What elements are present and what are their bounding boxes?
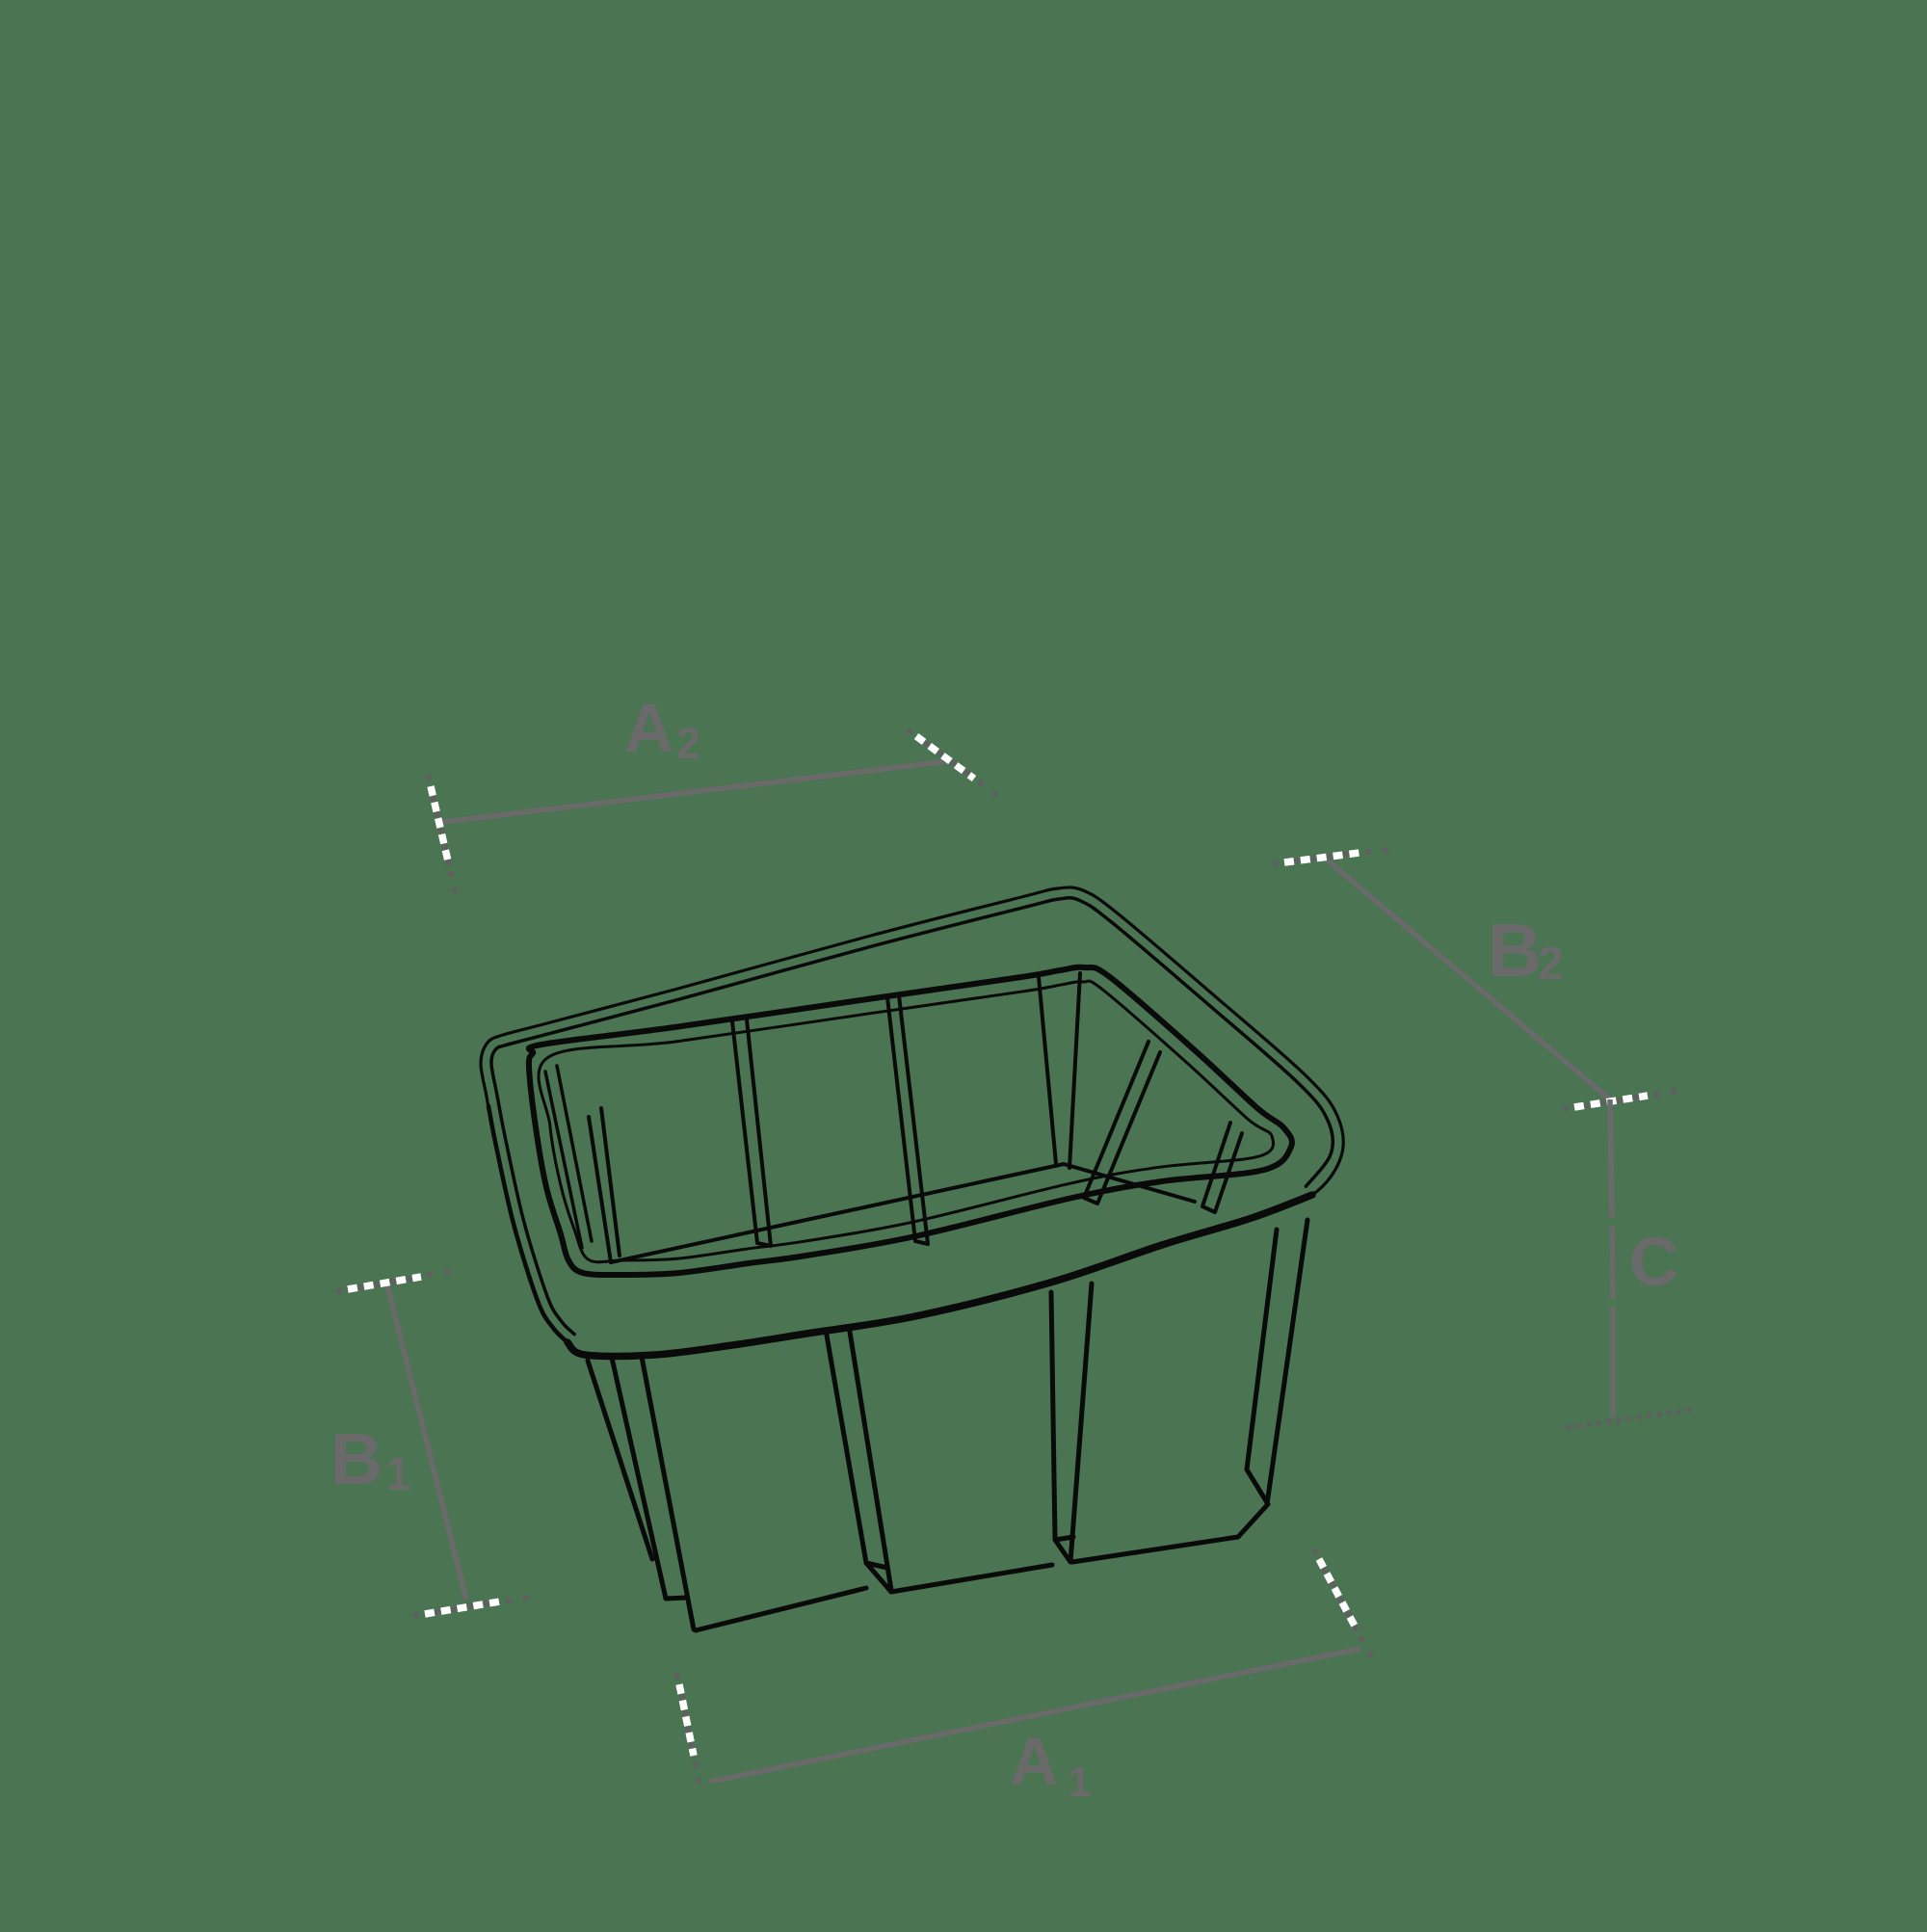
svg-text:1: 1 — [385, 1449, 411, 1500]
dimension B1 tick top — [336, 1288, 342, 1294]
dimension A1 line — [710, 1649, 1360, 1782]
svg-text:2: 2 — [676, 719, 700, 768]
svg-text:1: 1 — [1068, 1759, 1091, 1806]
dimension A2 line — [443, 761, 948, 822]
dimension C line — [1610, 1099, 1613, 1417]
interior floor edges — [611, 1164, 1195, 1262]
svg-text:2: 2 — [1538, 939, 1564, 990]
rim band bottom edge thick — [568, 1195, 1312, 1356]
interior back wall rib 1 — [732, 1019, 771, 1246]
dimension B2 tick bottom — [1563, 1105, 1569, 1111]
interior near-left wall lines — [545, 1066, 592, 1248]
dimension A2 tick left — [426, 775, 432, 781]
rim lower-left edge — [488, 1106, 568, 1342]
interior right wall rib A — [1084, 1042, 1160, 1204]
body left corner post — [588, 1357, 694, 1629]
interior back wall rib 2 — [887, 995, 928, 1244]
front slat gap 2 — [1051, 1284, 1092, 1562]
rim inner lip — [539, 981, 1274, 1262]
svg-text:A: A — [1010, 1724, 1059, 1799]
right face bottom edge and notch — [1238, 1469, 1268, 1537]
dimension C tick bottom dotted — [1566, 1424, 1571, 1430]
front slat gap 1 — [826, 1330, 891, 1592]
svg-text:A: A — [624, 691, 673, 767]
right face gap lines — [1247, 1220, 1307, 1504]
dimension B2 line — [1328, 860, 1610, 1099]
interior right wall rib B — [1202, 1123, 1242, 1212]
front slat bottom edges — [696, 1537, 1238, 1630]
svg-text:B: B — [330, 1418, 383, 1499]
dimension B2 tick top — [1273, 860, 1279, 866]
dimension A1 tick right — [1312, 1548, 1318, 1554]
dimension B1 tick bottom — [413, 1612, 419, 1618]
interior back corner edges — [1039, 973, 1080, 1168]
svg-text:C: C — [1629, 1225, 1678, 1301]
rim top chamfer line — [491, 898, 1333, 1335]
rim outer contour — [481, 887, 1343, 1357]
dimension A2 tick right — [907, 728, 912, 734]
svg-text:B: B — [1488, 908, 1542, 992]
dimension A1 tick left — [674, 1673, 680, 1679]
rim opening edge — [529, 967, 1292, 1275]
dimension B1 line — [387, 1285, 466, 1600]
interior left corner edges — [589, 1108, 620, 1262]
